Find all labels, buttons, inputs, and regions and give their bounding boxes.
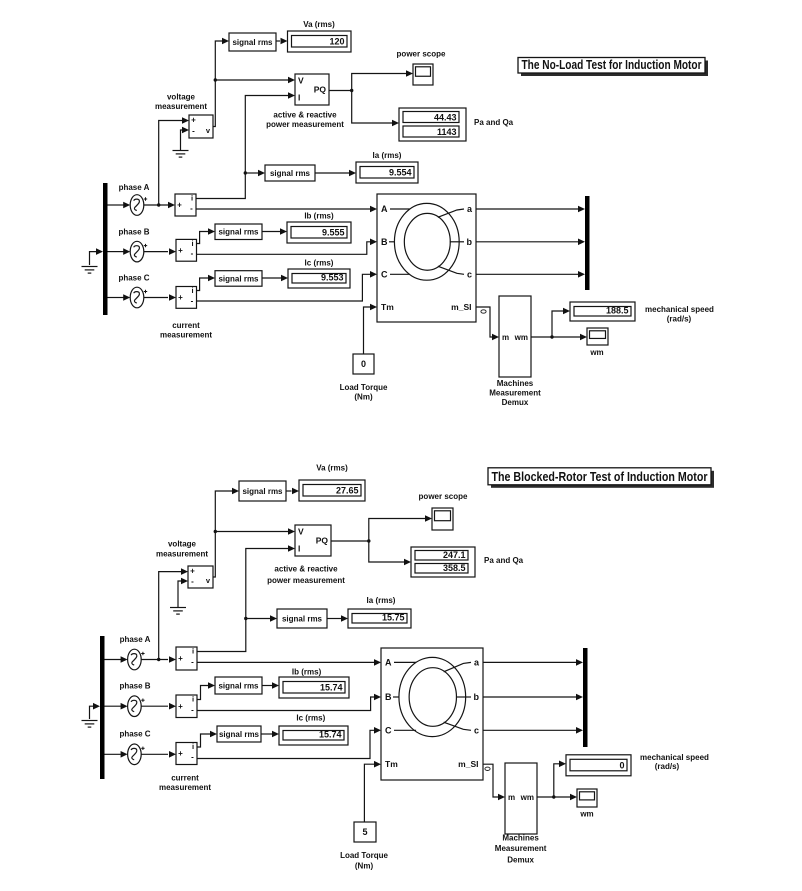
svg-text:9.555: 9.555 [322,228,345,238]
svg-text:C: C [385,725,392,735]
svg-text:measurement: measurement [155,102,207,111]
svg-text:phase C: phase C [118,274,149,283]
svg-text:i: i [191,286,193,295]
svg-text:C: C [381,269,388,279]
svg-text:247.1: 247.1 [443,550,466,560]
svg-text:wm: wm [520,793,534,802]
svg-text:wm: wm [579,810,593,819]
svg-text:i: i [191,194,193,203]
svg-text:current: current [172,321,200,330]
svg-text:signal rms: signal rms [218,228,259,237]
svg-text:15.74: 15.74 [319,730,342,740]
svg-text:Load Torque: Load Torque [340,851,388,860]
svg-text:(Nm): (Nm) [354,393,373,402]
svg-text:188.5: 188.5 [606,306,629,316]
svg-text:27.65: 27.65 [336,486,359,496]
svg-text:-: - [191,705,194,714]
svg-text:358.5: 358.5 [443,563,466,573]
svg-text:PQ: PQ [314,85,327,95]
svg-text:m: m [502,333,509,342]
svg-text:A: A [381,204,388,214]
svg-text:B: B [385,692,392,702]
svg-text:Tm: Tm [385,759,398,769]
svg-text:Pa and Qa: Pa and Qa [474,118,514,127]
svg-text:(rad/s): (rad/s) [655,762,680,771]
svg-text:signal rms: signal rms [218,274,259,283]
svg-text:+: + [190,567,195,576]
svg-text:+: + [177,201,182,210]
svg-text:phase C: phase C [119,730,150,739]
svg-text:signal rms: signal rms [270,169,311,178]
svg-text:phase A: phase A [119,183,150,192]
svg-text:power measurement: power measurement [266,120,344,129]
svg-text:m_SI: m_SI [451,302,471,312]
svg-text:measurement: measurement [160,331,212,340]
svg-text:Ia (rms): Ia (rms) [373,151,402,160]
svg-text:wm: wm [514,333,528,342]
svg-text:0: 0 [361,359,366,369]
svg-text:+: + [191,116,196,125]
svg-text:b: b [474,692,480,702]
svg-text:signal rms: signal rms [232,38,273,47]
svg-text:signal rms: signal rms [242,487,283,496]
svg-text:Va (rms): Va (rms) [303,20,335,29]
svg-text:power scope: power scope [397,50,446,59]
svg-text:signal rms: signal rms [219,730,260,739]
svg-text:44.43: 44.43 [434,113,457,123]
svg-text:1143: 1143 [437,127,457,137]
svg-text:-: - [192,127,195,136]
svg-text:5: 5 [362,827,367,837]
svg-text:active & reactive: active & reactive [273,111,337,120]
svg-text:B: B [381,237,388,247]
svg-text:(Nm): (Nm) [355,862,374,871]
svg-text:power scope: power scope [419,492,468,501]
svg-text:Demux: Demux [507,856,534,865]
svg-text:+: + [178,749,183,758]
svg-text:The Blocked-Rotor Test of Indu: The Blocked-Rotor Test of Induction Moto… [492,469,708,484]
svg-text:b: b [467,237,473,247]
svg-text:+: + [178,702,183,711]
svg-text:phase B: phase B [119,682,150,691]
svg-text:i: i [192,695,194,704]
svg-text:V: V [298,76,304,86]
svg-text:PQ: PQ [316,536,329,546]
svg-text:Ia (rms): Ia (rms) [367,596,396,605]
svg-text:voltage: voltage [167,93,196,102]
svg-text:Ib (rms): Ib (rms) [304,212,334,221]
svg-text:i: i [191,239,193,248]
svg-text:Va (rms): Va (rms) [316,464,348,473]
svg-text:-: - [191,577,194,586]
svg-text:c: c [474,725,479,735]
svg-text:(rad/s): (rad/s) [667,315,692,324]
svg-text:Tm: Tm [381,302,394,312]
svg-text:i: i [192,647,194,656]
svg-text:-: - [191,296,194,305]
svg-text:Measurement: Measurement [495,844,547,853]
svg-text:The No-Load Test for Induction: The No-Load Test for Induction Motor [522,57,702,72]
svg-text:+: + [178,293,183,302]
svg-text:i: i [192,742,194,751]
svg-text:m_SI: m_SI [458,759,478,769]
svg-text:wm: wm [589,348,603,357]
svg-text:Ic (rms): Ic (rms) [305,259,334,268]
svg-text:mechanical speed: mechanical speed [645,305,714,314]
svg-text:phase B: phase B [118,228,149,237]
svg-text:Demux: Demux [502,398,529,407]
svg-text:Machines: Machines [502,834,539,843]
svg-text:current: current [171,774,199,783]
svg-text:Ib (rms): Ib (rms) [292,668,322,677]
svg-text:V: V [298,527,304,537]
svg-text:Machines: Machines [497,379,534,388]
svg-text:signal rms: signal rms [282,614,323,623]
svg-text:power measurement: power measurement [267,576,345,585]
svg-text:9.553: 9.553 [321,273,344,283]
svg-text:I: I [298,544,300,554]
svg-text:-: - [191,249,194,258]
svg-text:Pa and Qa: Pa and Qa [484,556,524,565]
svg-text:mechanical speed: mechanical speed [640,753,709,762]
svg-text:15.75: 15.75 [382,613,405,623]
svg-text:A: A [385,657,392,667]
svg-text:+: + [178,654,183,663]
svg-text:phase A: phase A [120,635,151,644]
svg-text:I: I [298,93,300,103]
svg-text:15.74: 15.74 [320,683,343,693]
svg-text:active & reactive: active & reactive [274,565,338,574]
svg-text:m: m [508,793,515,802]
svg-text:Load Torque: Load Torque [340,383,388,392]
svg-text:measurement: measurement [159,783,211,792]
svg-text:-: - [191,752,194,761]
svg-text:-: - [191,658,194,667]
svg-text:120: 120 [329,37,344,47]
svg-text:9.554: 9.554 [389,168,412,178]
svg-text:Measurement: Measurement [489,389,541,398]
svg-text:0: 0 [619,760,624,770]
svg-text:+: + [178,246,183,255]
svg-text:signal rms: signal rms [218,681,259,690]
svg-text:c: c [467,269,472,279]
svg-text:-: - [190,204,193,213]
svg-text:measurement: measurement [156,550,208,559]
svg-text:Ic (rms): Ic (rms) [296,714,325,723]
svg-text:voltage: voltage [168,540,197,549]
